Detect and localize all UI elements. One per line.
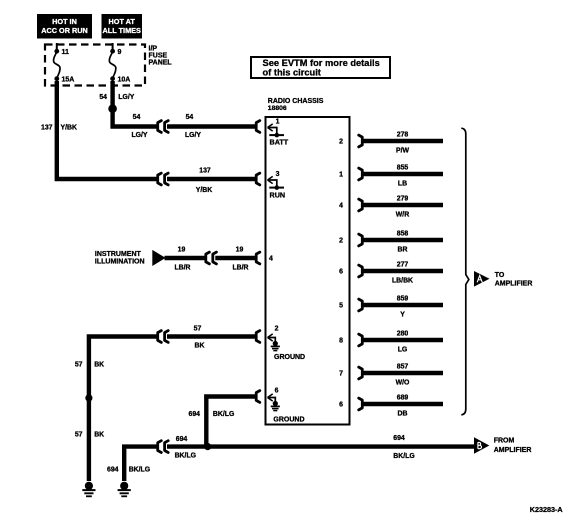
splice dot on 54 LG/Y wire <box>108 104 117 113</box>
svg-text:57: 57 <box>75 362 83 369</box>
svg-text:3: 3 <box>276 171 280 178</box>
wire 19 LB/R segment 1 <box>165 256 207 260</box>
svg-text:694: 694 <box>107 467 119 474</box>
label 57 BK lower vertical <box>75 432 104 439</box>
wire 57 BK from radio pin 2 to ground <box>89 337 157 482</box>
connector at radio RUN pin <box>256 173 260 185</box>
svg-text:INSTRUMENT: INSTRUMENT <box>95 251 142 258</box>
radio pin 1 output 855 LB <box>339 165 443 188</box>
svg-text:6: 6 <box>339 269 343 276</box>
svg-text:6: 6 <box>339 402 343 409</box>
I/P fuse panel label <box>149 46 173 67</box>
svg-text:BK: BK <box>195 342 205 349</box>
radio pin 3 RUN <box>268 171 286 200</box>
label 19 LB/R right <box>232 246 248 271</box>
svg-text:P/W: P/W <box>396 148 410 155</box>
svg-text:Y/BK: Y/BK <box>61 125 77 132</box>
svg-text:of this circuit: of this circuit <box>263 67 321 77</box>
svg-text:HOT AT: HOT AT <box>109 17 136 26</box>
svg-text:K23283-A: K23283-A <box>530 505 563 514</box>
splice junction dot on 694 wire <box>204 443 211 450</box>
radio pin 8 output 280 LG <box>339 331 443 354</box>
label 54 LG/Y right of inline connector <box>185 114 201 139</box>
label 54 LG/Y left of inline connector <box>131 114 147 139</box>
inline connector on 137 wire <box>158 173 169 185</box>
label 54 LG/Y at fuse output <box>99 94 134 101</box>
svg-text:BK/LG: BK/LG <box>129 467 150 474</box>
ground G1 <box>82 482 95 497</box>
svg-text:15A: 15A <box>62 77 75 84</box>
svg-text:RUN: RUN <box>270 191 286 200</box>
svg-text:1: 1 <box>276 119 280 126</box>
svg-text:4: 4 <box>339 203 343 210</box>
svg-text:2: 2 <box>339 139 343 146</box>
wire 54 LG/Y vertical+horizontal from fuse 10A <box>113 81 158 127</box>
power source box HOT AT ALL TIMES <box>102 14 143 39</box>
radio pin 5 output 859 Y <box>339 296 443 319</box>
ground G2 <box>118 482 131 497</box>
svg-text:694: 694 <box>189 411 201 418</box>
connector A arrow TO AMPLIFIER <box>474 271 532 287</box>
svg-text:W/R: W/R <box>396 212 409 219</box>
wire from HOT IN ACC OR RUN box to fuse terminal 11 <box>56 43 58 51</box>
svg-text:8: 8 <box>339 338 343 345</box>
svg-text:LB: LB <box>398 181 407 188</box>
svg-text:54: 54 <box>133 114 141 121</box>
splice dot on 57 BK vertical <box>85 394 92 401</box>
svg-text:857: 857 <box>397 364 409 371</box>
svg-text:279: 279 <box>397 196 409 203</box>
svg-text:AMPLIFIER: AMPLIFIER <box>495 280 533 287</box>
label 694 BK/LG on pin6 vertical <box>189 411 235 418</box>
radio pin 7 output 857 W/O <box>339 364 443 387</box>
svg-text:BK/LG: BK/LG <box>175 452 196 459</box>
svg-text:FROM: FROM <box>494 438 515 445</box>
svg-text:859: 859 <box>397 296 409 303</box>
svg-text:57: 57 <box>75 432 83 439</box>
label 137 Y/BK on vertical wire <box>41 125 77 132</box>
svg-text:Y: Y <box>400 312 405 319</box>
wire 694 BK/LG from radio pin 6 down to splice <box>206 397 255 447</box>
radio pin 6 output 277 LB/BK <box>339 262 443 285</box>
radio pin 6 GROUND <box>268 388 305 424</box>
svg-text:DB: DB <box>398 411 408 418</box>
svg-text:LG/Y: LG/Y <box>131 132 147 139</box>
svg-text:1: 1 <box>339 172 343 179</box>
wire from HOT AT ALL TIMES box to fuse terminal 9 <box>112 43 114 51</box>
svg-text:LB/R: LB/R <box>232 265 248 272</box>
label 694 BK/LG right segment <box>393 435 414 460</box>
label 19 LB/R left <box>174 246 190 271</box>
svg-text:LB/BK: LB/BK <box>392 278 413 285</box>
svg-text:AMPLIFIER: AMPLIFIER <box>494 447 532 454</box>
inline connector on 54 wire <box>158 121 169 133</box>
svg-text:9: 9 <box>118 49 122 56</box>
svg-text:137: 137 <box>199 167 211 174</box>
svg-text:2: 2 <box>339 238 343 245</box>
radio pin 2 output 858 BR <box>339 231 443 254</box>
svg-text:54: 54 <box>99 94 107 101</box>
svg-text:I/P: I/P <box>149 46 158 53</box>
svg-text:4: 4 <box>269 256 273 263</box>
svg-text:858: 858 <box>397 231 409 238</box>
connector at radio pin 6 <box>256 391 260 403</box>
svg-text:GROUND: GROUND <box>274 354 305 361</box>
svg-text:BATT: BATT <box>270 138 289 147</box>
svg-text:LG: LG <box>398 347 408 354</box>
wire 694 BK/LG to FROM AMPLIFIER <box>167 444 476 448</box>
inline connector on 57 wire <box>158 331 169 343</box>
svg-text:54: 54 <box>186 114 194 121</box>
svg-text:W/O: W/O <box>396 380 410 387</box>
svg-text:ACC OR RUN: ACC OR RUN <box>41 26 88 35</box>
wire 19 LB/R segment 2 <box>215 256 255 260</box>
svg-text:57: 57 <box>194 325 202 332</box>
svg-text:RADIO CHASSIS: RADIO CHASSIS <box>268 98 324 105</box>
radio chassis label 18806 <box>268 98 324 112</box>
svg-text:BK/LG: BK/LG <box>213 411 234 418</box>
wire 694 BK/LG left segment to ground G2 <box>124 447 157 481</box>
svg-text:18806: 18806 <box>268 105 287 112</box>
svg-text:5: 5 <box>339 303 343 310</box>
brace grouping amplifier wires <box>461 128 469 415</box>
svg-text:BR: BR <box>398 247 408 254</box>
svg-text:ALL TIMES: ALL TIMES <box>103 26 142 35</box>
radio pin 6 output 689 DB <box>339 395 443 418</box>
svg-text:19: 19 <box>178 246 186 253</box>
svg-text:10A: 10A <box>118 77 131 84</box>
svg-text:LG/Y: LG/Y <box>185 132 201 139</box>
svg-text:7: 7 <box>339 371 343 378</box>
svg-text:694: 694 <box>393 435 405 442</box>
svg-text:HOT IN: HOT IN <box>52 17 77 26</box>
svg-text:855: 855 <box>397 165 409 172</box>
svg-text:ILLUMINATION: ILLUMINATION <box>95 259 145 266</box>
svg-text:280: 280 <box>397 331 409 338</box>
radio pin 2 GROUND <box>268 326 306 361</box>
radio chassis box <box>266 117 350 425</box>
svg-text:LG/Y: LG/Y <box>118 94 134 101</box>
svg-text:PANEL: PANEL <box>149 60 173 67</box>
radio pin 4 output 279 W/R <box>339 196 443 219</box>
svg-text:694: 694 <box>176 436 188 443</box>
svg-text:11: 11 <box>62 49 70 56</box>
inline connector on 19 wire <box>206 252 217 264</box>
svg-text:LB/R: LB/R <box>174 265 190 272</box>
fuse 15A between terminals 11 and 15A <box>54 49 75 84</box>
label 57 BK upper vertical <box>75 362 104 369</box>
svg-text:BK/LG: BK/LG <box>393 453 414 460</box>
connector at radio pin 4 <box>256 252 260 264</box>
svg-text:689: 689 <box>397 395 409 402</box>
wire 137 Y/BK from connector to radio <box>167 177 256 181</box>
power source box HOT IN ACC OR RUN <box>37 14 92 39</box>
instrument illumination source <box>95 250 166 266</box>
connector B arrow FROM AMPLIFIER <box>474 437 531 454</box>
svg-text:TO: TO <box>495 272 505 279</box>
radio pin 4 <box>269 256 273 263</box>
wire 137 Y/BK vertical+horizontal from fuse 15A <box>57 81 157 179</box>
label 57 BK on horizontal <box>194 325 205 349</box>
svg-text:19: 19 <box>236 246 244 253</box>
fuse 10A between terminals 9 and 10A <box>109 49 130 84</box>
connector at radio BATT pin <box>256 121 260 133</box>
label 694 BK/LG on ground G2 drop <box>107 467 150 474</box>
svg-text:2: 2 <box>275 326 279 333</box>
svg-text:FUSE: FUSE <box>149 53 168 60</box>
label 694 BK/LG left of splice <box>175 436 196 459</box>
svg-text:278: 278 <box>397 132 409 139</box>
label 137 Y/BK on horizontal wire <box>196 167 212 194</box>
svg-text:Y/BK: Y/BK <box>196 187 212 194</box>
connector at radio pin 2 <box>256 331 260 343</box>
svg-text:GROUND: GROUND <box>273 417 304 424</box>
radio pin 2 output 278 P/W <box>339 132 443 155</box>
svg-text:277: 277 <box>397 262 409 269</box>
svg-text:BK: BK <box>94 432 104 439</box>
wire 57 BK connector to radio <box>167 334 256 338</box>
wire 54 LG/Y from connector to radio <box>167 124 256 128</box>
svg-text:6: 6 <box>275 388 279 395</box>
svg-text:137: 137 <box>41 125 53 132</box>
radio pin 1 BATT <box>268 119 289 147</box>
svg-text:BK: BK <box>94 362 104 369</box>
note box See EVTM <box>251 57 390 78</box>
inline connector on 694 wire <box>158 441 169 453</box>
I/P fuse panel dashed box <box>45 45 145 86</box>
diagram id K23283-A <box>530 505 563 514</box>
